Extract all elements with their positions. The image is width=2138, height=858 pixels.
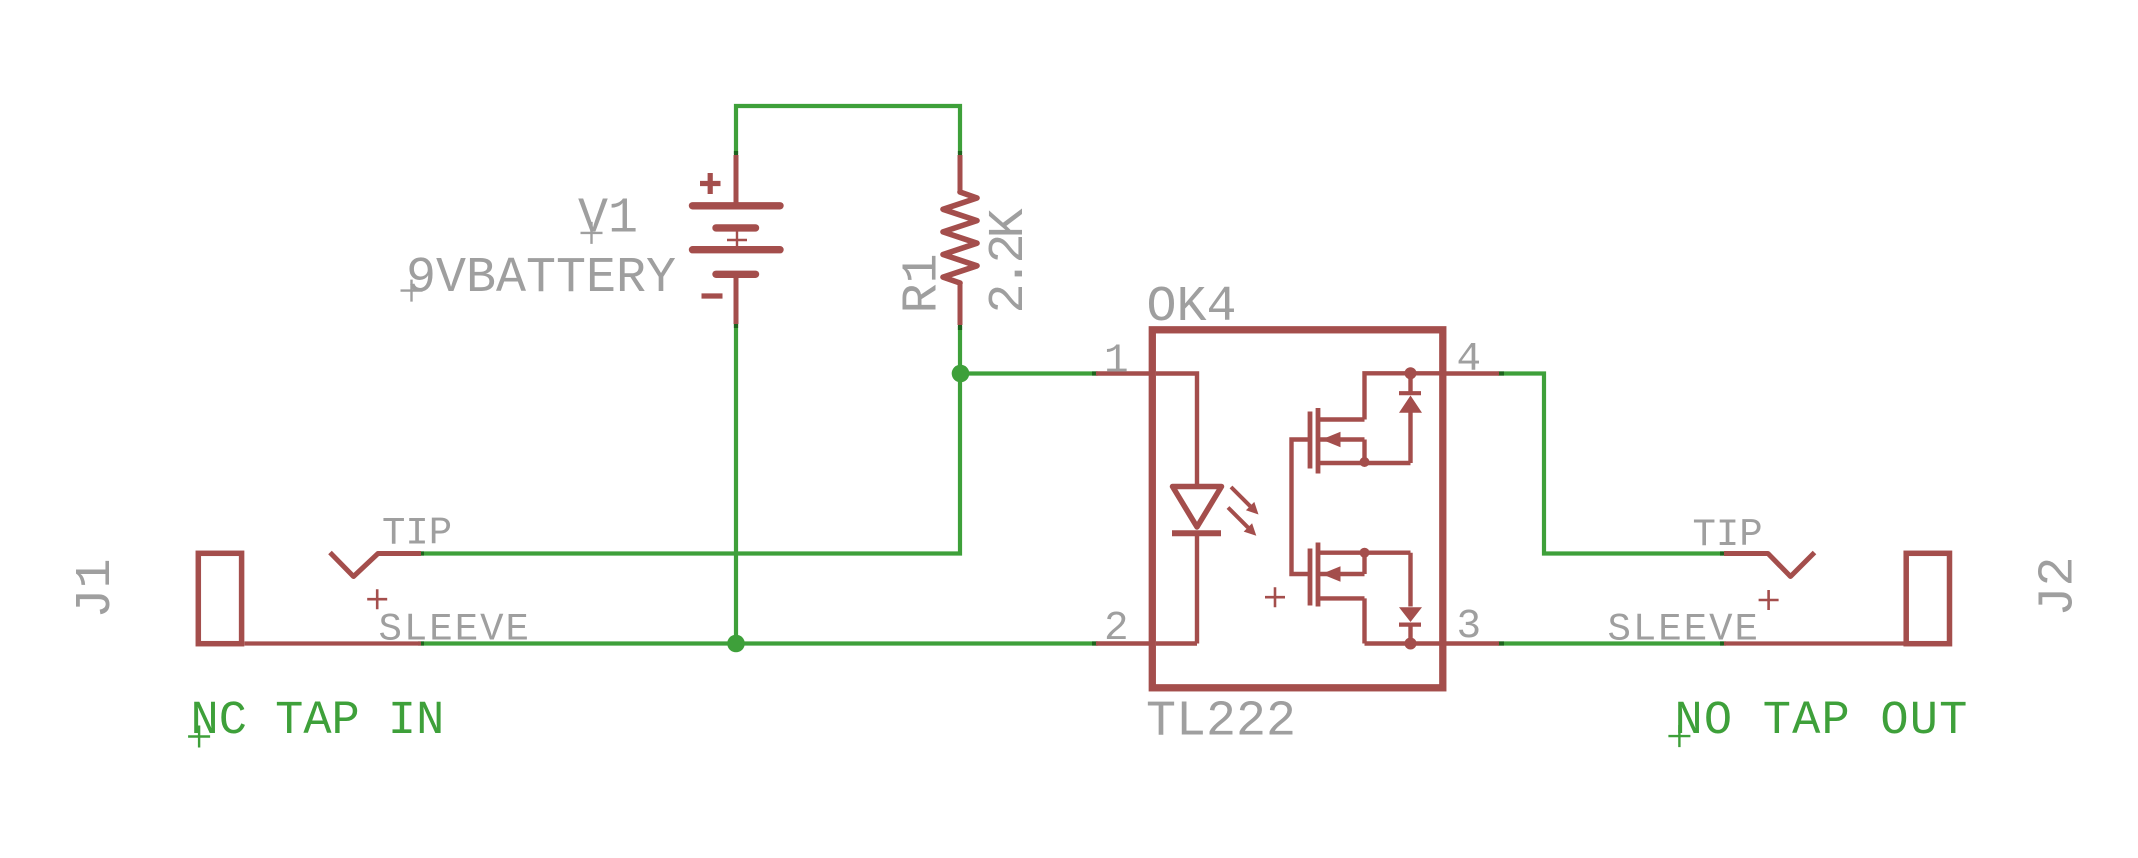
svg-text:J1: J1: [68, 558, 125, 618]
svg-text:TIP: TIP: [382, 512, 452, 556]
svg-text:2.2K: 2.2K: [981, 208, 1038, 313]
svg-text:J2: J2: [2031, 556, 2088, 616]
svg-text:2: 2: [1104, 606, 1129, 652]
svg-text:1: 1: [1104, 339, 1129, 385]
svg-text:OK4: OK4: [1147, 279, 1237, 336]
svg-text:SLEEVE: SLEEVE: [1608, 608, 1760, 652]
svg-text:NO TAP OUT: NO TAP OUT: [1675, 695, 1969, 748]
svg-text:9VBATTERY: 9VBATTERY: [406, 250, 676, 307]
svg-text:3: 3: [1457, 604, 1482, 650]
svg-text:TIP: TIP: [1693, 513, 1763, 557]
svg-text:SLEEVE: SLEEVE: [379, 608, 531, 652]
svg-text:TL222: TL222: [1146, 694, 1296, 751]
svg-text:R1: R1: [895, 253, 952, 313]
svg-text:4: 4: [1457, 337, 1482, 383]
svg-text:NC TAP IN: NC TAP IN: [191, 695, 445, 748]
svg-text:V1: V1: [578, 191, 638, 248]
